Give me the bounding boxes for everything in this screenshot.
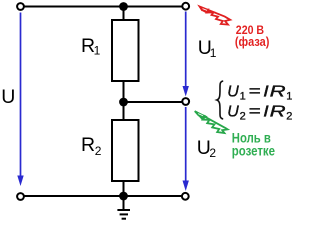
svg-text:=: = [249, 83, 261, 100]
arrow U2 (right lower, blue) [185, 107, 187, 182]
svg-text:R: R [270, 83, 287, 100]
resistor R2 [112, 120, 139, 181]
svg-text:2: 2 [286, 111, 292, 123]
svg-text:U: U [1, 86, 15, 108]
svg-text:I: I [263, 103, 269, 120]
node top junction [119, 2, 128, 11]
svg-text:2: 2 [209, 146, 216, 160]
svg-text:I: I [263, 83, 269, 100]
terminal middle-right [182, 98, 189, 105]
svg-text:=: = [249, 103, 261, 120]
wire top horizontal [23, 6, 183, 8]
svg-text:(фаза): (фаза) [235, 35, 270, 49]
red lightning arrow (220V phase pointer) [200, 6, 231, 24]
wire vertical top junction to R1 [123, 7, 125, 22]
svg-text:2: 2 [240, 111, 246, 123]
arrow U (left, blue) [20, 13, 22, 178]
ground [117, 200, 130, 219]
equation U2 = IR2 [227, 103, 292, 123]
wire bottom horizontal [23, 195, 183, 197]
red arrow inner slit [203, 9, 208, 11]
green lightning arrow (neutral pointer) [195, 111, 228, 133]
node bottom junction [119, 192, 128, 201]
svg-text:розетке: розетке [232, 144, 276, 159]
svg-text:1: 1 [286, 91, 292, 103]
green arrow head fill [195, 111, 207, 119]
terminal top-right [182, 3, 189, 10]
svg-text:R: R [81, 134, 95, 156]
svg-text:1: 1 [94, 44, 101, 58]
svg-text:U: U [227, 103, 239, 120]
equation U1 = IR1 [227, 83, 292, 103]
terminal bottom-right [182, 193, 189, 200]
resistor R1 [112, 20, 139, 81]
red arrow head fill [200, 6, 211, 13]
svg-text:U: U [227, 83, 239, 100]
green arrow inner slit [198, 114, 203, 116]
node middle junction [119, 98, 128, 107]
terminal top-left [17, 3, 24, 10]
svg-text:1: 1 [240, 91, 246, 103]
wire middle horizontal [124, 101, 184, 103]
svg-text:2: 2 [95, 144, 102, 158]
arrow U1 (right upper, blue) [185, 12, 187, 88]
equations brace [217, 81, 223, 119]
wire R1 bottom to R2 top [123, 80, 125, 121]
svg-text:R: R [270, 103, 287, 120]
svg-text:1: 1 [210, 46, 217, 60]
terminal bottom-left [17, 193, 24, 200]
wire R2 bottom to bottom wire [123, 180, 125, 197]
